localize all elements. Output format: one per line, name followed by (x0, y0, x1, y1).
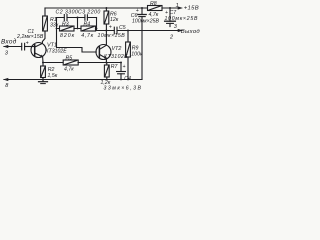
svg-text:R8: R8 (150, 1, 157, 7)
svg-text:R5: R5 (66, 56, 73, 62)
ground (39, 79, 48, 84)
svg-text:2,2мк×15В: 2,2мк×15В (16, 34, 44, 40)
svg-text:Вход: Вход (1, 37, 17, 45)
svg-text:33мк×6,3В: 33мк×6,3В (104, 85, 143, 91)
svg-text:820к: 820к (60, 33, 75, 39)
wire top rail (45, 7, 179, 9)
node R7 rail junction (106, 79, 108, 81)
capacitor C7 (165, 7, 176, 27)
svg-text:С3 2200: С3 2200 (78, 9, 101, 15)
resistor R9 (126, 30, 131, 80)
capacitor C6 (138, 7, 146, 80)
svg-text:VT2: VT2 (112, 46, 122, 52)
svg-text:+: + (26, 40, 29, 46)
transistor VT1 (31, 43, 46, 63)
resistor R4 (81, 26, 96, 31)
svg-text:100мк×25В: 100мк×25В (165, 16, 199, 22)
node VT2 collector junction (105, 30, 107, 32)
svg-text:+15В: +15В (184, 6, 199, 12)
svg-text:КТ3102Е: КТ3102Е (104, 54, 128, 60)
svg-text:3: 3 (174, 24, 178, 30)
svg-text:С2 3300: С2 3300 (56, 9, 79, 15)
svg-text:12к: 12к (110, 17, 119, 23)
wire tone top (57, 17, 97, 19)
resistor R5 (63, 60, 78, 65)
capacitor C5 (114, 27, 117, 34)
output arrow (178, 29, 183, 32)
wire VT2 collector (100, 31, 107, 50)
bottom-left terminal arrow (3, 78, 8, 81)
capacitor C3 (85, 15, 88, 20)
+15V arrow (178, 6, 183, 9)
svg-text:8: 8 (5, 83, 9, 89)
resistor R8 (148, 6, 163, 11)
svg-text:3: 3 (5, 50, 9, 56)
svg-text:R7: R7 (111, 64, 119, 70)
svg-text:33к: 33к (50, 23, 59, 29)
node tone-right leg (96, 18, 98, 31)
node R3 left junction (56, 28, 58, 30)
wire emitter row (43, 62, 121, 64)
resistor R7 (104, 63, 109, 80)
svg-text:4,7к: 4,7к (149, 12, 159, 18)
node R4 right junction (96, 28, 98, 30)
node C4 rail junction (120, 79, 122, 81)
svg-text:С5: С5 (119, 25, 126, 31)
resistor R2 (41, 63, 46, 80)
node R3/R4 mid junction (77, 28, 79, 30)
wire output line (97, 30, 180, 32)
svg-text:1,5к: 1,5к (48, 73, 58, 79)
svg-text:С4: С4 (124, 76, 131, 82)
svg-text:R3: R3 (62, 21, 69, 27)
capacitor C4 (117, 62, 126, 80)
resistor R6 (104, 7, 109, 31)
input arrow (3, 45, 8, 48)
svg-text:100к: 100к (131, 52, 143, 58)
wire R1 leg from rail (44, 8, 46, 16)
wire bottom rail (4, 79, 142, 81)
svg-text:10мк×15В: 10мк×15В (98, 33, 126, 39)
wire R1 to VT1 collector (42, 31, 45, 43)
svg-text:1: 1 (176, 3, 179, 9)
wire input (4, 46, 22, 48)
svg-text:4,7к: 4,7к (64, 67, 74, 73)
svg-text:+: + (109, 24, 112, 30)
wire trimmer row (57, 28, 97, 30)
node mid stub (77, 18, 79, 29)
resistor R3 (60, 26, 75, 31)
svg-text:100мк×25В: 100мк×25В (132, 19, 159, 25)
svg-text:КТ3102Е: КТ3102Е (46, 48, 68, 54)
svg-text:+: + (123, 64, 126, 70)
node A tone-left leg (57, 18, 97, 53)
svg-text:R4: R4 (84, 21, 91, 27)
svg-text:2: 2 (169, 34, 173, 40)
svg-text:Выход: Выход (181, 29, 200, 35)
transistor VT2 (96, 45, 111, 63)
node R9 rail junction (127, 79, 129, 81)
resistor R1 (43, 16, 48, 31)
capacitor C2 (64, 15, 67, 21)
capacitor C1 (22, 43, 35, 50)
svg-text:4,7к: 4,7к (81, 33, 93, 39)
